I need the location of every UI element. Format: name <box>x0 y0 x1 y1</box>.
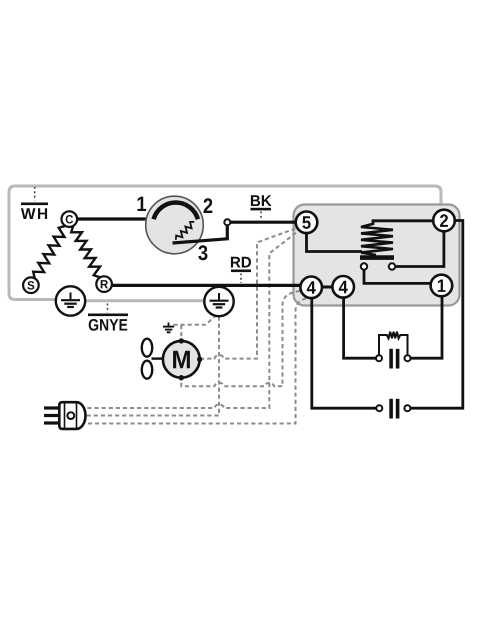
terminal S <box>23 277 39 293</box>
ground protective earth supply <box>204 287 233 316</box>
label BK black wire <box>251 195 272 219</box>
wire: terminal 4a to start capacitor <box>312 299 377 409</box>
wire: terminal 4b to run capacitor <box>344 298 376 359</box>
wire: terminal C to thermostat contact 1 <box>76 217 154 220</box>
wire: coil top to terminal 2 <box>373 221 434 225</box>
relay armature bar <box>360 255 394 260</box>
terminal C <box>62 211 78 227</box>
label RD red wire <box>231 257 251 283</box>
relay contact right <box>389 263 395 269</box>
motor earth symbol <box>163 323 174 333</box>
thermostat contact arc <box>154 202 198 219</box>
fan motor M <box>163 338 202 380</box>
thermostat pin label 1 <box>138 197 147 211</box>
thermostat body <box>146 196 204 254</box>
relay box enclosure <box>294 205 460 306</box>
label WH white wire <box>21 187 48 219</box>
wire: link terminal 4a to 4b <box>321 286 334 289</box>
thermostat pin label 3 <box>198 245 207 260</box>
thermostat bimetal resistor <box>176 222 195 240</box>
wire: relay 5 to coil <box>307 233 363 252</box>
relay terminal 4 <box>300 277 322 299</box>
mains plug <box>44 402 85 429</box>
bleed resistor on run capacitor <box>379 332 408 356</box>
wire: dashed cord terminal 4 to fan motor <box>181 291 300 386</box>
start capacitor <box>376 399 410 419</box>
motor winding C-S <box>33 226 65 279</box>
wire: terminal 1 to run capacitor <box>411 296 442 358</box>
wire: dashed motor top to earth line <box>180 325 182 339</box>
node BK junction <box>224 219 230 225</box>
wire: dashed earth cord ground to plug <box>87 317 220 416</box>
thermostat pin label 2 <box>204 198 213 213</box>
wire: terminal 2 to start capacitor <box>411 221 463 409</box>
compressor housing outline (gray) <box>9 186 441 300</box>
wire: terminal R to relay terminal 4 (RD) <box>111 284 302 287</box>
relay terminal 1 <box>431 275 453 297</box>
wire: right contact to terminal 2 <box>396 231 444 267</box>
relay contact left <box>361 263 367 269</box>
ground protective earth compressor <box>56 286 85 315</box>
wire: left contact to terminal 1 <box>364 270 432 284</box>
relay terminal 5 <box>296 212 318 234</box>
terminal R <box>96 276 112 292</box>
wire: dashed cord terminal 4 to plug <box>87 299 307 424</box>
thermostat wiper wire to terminal 3 <box>173 225 228 243</box>
wire: BK node to relay terminal 5 <box>227 221 297 224</box>
motor winding C-R <box>71 226 100 278</box>
relay coil <box>361 224 393 256</box>
wire: dashed cord terminal 5 to plug <box>87 233 297 408</box>
relay terminal 2 <box>433 210 455 232</box>
relay terminal 4 <box>332 276 354 298</box>
ground bus wire (gray) <box>58 299 216 302</box>
run capacitor <box>376 349 411 369</box>
wire: dashed cord terminal 5 to fan motor <box>203 229 296 359</box>
wire: dashed earth branch ground to motor earth <box>171 315 217 325</box>
fan blades <box>142 339 163 379</box>
label GNYE earth wire <box>88 304 128 331</box>
